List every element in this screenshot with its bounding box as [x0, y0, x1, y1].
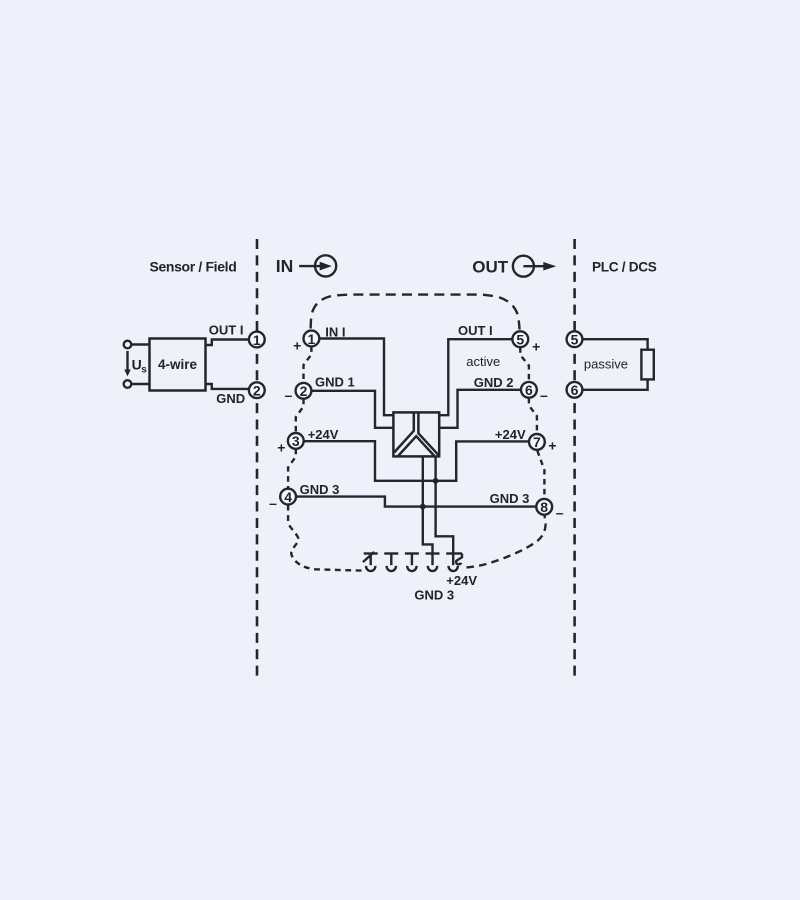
terminal 6 circle	[521, 382, 537, 398]
svg-text:+24V: +24V	[495, 427, 526, 442]
sensor supply terminal bottom	[124, 380, 132, 388]
IN arrow icon	[299, 255, 336, 276]
svg-text:+24V: +24V	[446, 573, 477, 588]
svg-text:+: +	[293, 337, 301, 353]
terminal 8 circle	[536, 499, 552, 515]
zone separator: PLC/DCS dashed line	[573, 239, 576, 676]
wire +24V right: terminal 7 to +24V rail	[436, 441, 529, 480]
module dashed outline top arc	[311, 295, 520, 330]
svg-text:7: 7	[533, 434, 541, 450]
zone separator: Sensor/Field dashed line	[256, 239, 259, 676]
svg-text:GND: GND	[216, 391, 245, 406]
svg-text:GND 3: GND 3	[300, 482, 340, 497]
module dashed outline bottom right	[467, 515, 546, 567]
svg-text:GND 3: GND 3	[490, 491, 530, 506]
svg-text:–: –	[556, 505, 564, 521]
svg-text:PLC / DCS: PLC / DCS	[592, 260, 657, 275]
svg-text:2: 2	[253, 382, 261, 398]
bus clamp 4 (GND 3)	[426, 554, 440, 572]
wire GND 1: terminal 2 to isolator	[311, 391, 393, 428]
svg-text:6: 6	[571, 382, 579, 398]
bus clamp 3	[405, 554, 419, 572]
isolator symbol right branch	[418, 413, 438, 455]
svg-text:–: –	[285, 387, 293, 403]
svg-text:–: –	[540, 387, 548, 403]
svg-text:8: 8	[540, 499, 548, 515]
svg-text:passive: passive	[584, 356, 628, 371]
svg-text:+: +	[532, 338, 540, 354]
svg-text:5: 5	[516, 331, 524, 347]
wire GND 3 from isolator bottom to clamp 4	[423, 456, 433, 553]
svg-text:+: +	[548, 438, 556, 454]
svg-text:OUT: OUT	[472, 257, 509, 276]
wire sensor bottom to 4-wire box	[131, 383, 149, 385]
terminal 3 circle	[288, 433, 304, 449]
terminal 5 circle	[512, 331, 528, 347]
isolator symbol inner chevron	[398, 436, 434, 456]
module dashed outline between terminals 6-7	[529, 398, 537, 434]
terminal 2L circle	[249, 382, 265, 398]
wire load resistor to terminal 6R	[583, 379, 648, 389]
load resistor R1	[641, 350, 653, 380]
junction +24V rail	[433, 478, 439, 484]
svg-text:–: –	[269, 495, 277, 511]
isolator symbol left branch	[394, 413, 414, 453]
module dashed outline between terminals 7-8	[537, 451, 544, 499]
svg-text:OUT I: OUT I	[209, 323, 244, 338]
terminal 7 circle	[529, 434, 545, 450]
bus clamp 5 (+24V) with spring hook	[446, 554, 462, 572]
OUT arrow icon	[513, 256, 556, 277]
svg-text:1: 1	[308, 331, 316, 347]
terminal 4 circle	[280, 489, 296, 505]
module dashed outline between terminals 1-2	[304, 346, 312, 383]
wire GND 2: terminal 6 to isolator	[439, 390, 521, 428]
svg-text:5: 5	[571, 331, 579, 347]
bus clamp 1 with slash	[363, 552, 378, 571]
svg-text:GND 3: GND 3	[414, 588, 454, 603]
svg-text:active: active	[466, 354, 500, 369]
wire 4-wire GND to terminal 2L	[206, 384, 249, 389]
svg-text:1: 1	[253, 332, 261, 348]
terminal 6R circle	[567, 382, 583, 398]
terminal 5R circle	[567, 331, 583, 347]
svg-text:2: 2	[300, 383, 308, 399]
wire GND 3 rail: terminal 4 to terminal 8	[296, 497, 536, 507]
svg-text:OUT I: OUT I	[458, 323, 493, 338]
sensor supply terminal top	[124, 341, 132, 349]
terminal 2 circle	[296, 383, 312, 399]
wire OUT I: terminal 5 to isolator	[439, 339, 512, 415]
svg-text:4-wire: 4-wire	[158, 357, 198, 372]
wire +24V left: terminal 3 to +24V rail	[304, 441, 436, 481]
wire sensor top to 4-wire box	[131, 343, 149, 345]
Us voltage arrow	[124, 351, 131, 376]
svg-text:s: s	[141, 365, 147, 376]
module dashed outline between terminals 5-6	[520, 347, 529, 381]
module dashed outline between terminals 3-4	[288, 449, 296, 489]
svg-text:4: 4	[284, 489, 292, 505]
wire IN I: terminal 1 to isolator	[319, 339, 393, 416]
svg-text:IN I: IN I	[325, 325, 345, 340]
svg-text:GND 2: GND 2	[474, 375, 514, 390]
svg-text:+24V: +24V	[308, 427, 339, 442]
svg-text:+: +	[277, 439, 285, 455]
wire +24V from isolator bottom to clamp 5	[436, 456, 454, 553]
isolator U1 box	[393, 412, 439, 456]
terminal 1L circle	[249, 332, 265, 348]
module dashed outline between terminals 2-3	[296, 399, 304, 433]
svg-text:3: 3	[292, 433, 300, 449]
svg-text:6: 6	[525, 382, 533, 398]
bus clamp 2	[384, 554, 398, 572]
junction GND 3 rail	[420, 504, 426, 510]
svg-text:Sensor / Field: Sensor / Field	[150, 259, 237, 275]
wire terminal 5R to load resistor	[583, 339, 648, 350]
svg-text:IN: IN	[276, 256, 294, 276]
svg-text:GND 1: GND 1	[315, 375, 355, 390]
module dashed outline bottom left	[288, 505, 362, 571]
terminal 1 circle	[304, 331, 320, 347]
4-wire transmitter box	[150, 339, 206, 391]
wire 4-wire OUT I to terminal 1L	[206, 340, 249, 346]
